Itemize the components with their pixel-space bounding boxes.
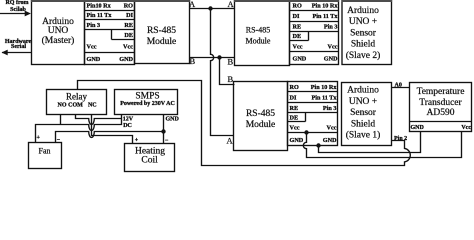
svg-text:GND: GND: [87, 56, 101, 63]
svg-text:Sensor: Sensor: [350, 29, 377, 39]
svg-text:(Master): (Master): [42, 35, 75, 46]
svg-text:Pin 10 Rx: Pin 10 Rx: [311, 84, 338, 91]
svg-text:GND: GND: [166, 117, 180, 123]
svg-text:UNO: UNO: [48, 26, 69, 36]
svg-text:Sensor: Sensor: [350, 108, 377, 118]
svg-text:Pin 3: Pin 3: [323, 105, 337, 112]
svg-text:GND: GND: [411, 125, 425, 131]
svg-text:Module: Module: [246, 120, 276, 130]
svg-text:+: +: [37, 135, 41, 141]
svg-text:Scilab: Scilab: [10, 7, 26, 13]
svg-text:A: A: [227, 136, 234, 146]
svg-text:A: A: [189, 0, 196, 9]
svg-text:RE: RE: [290, 105, 299, 112]
svg-text:B: B: [228, 57, 234, 67]
svg-text:B: B: [228, 74, 234, 84]
svg-text:Fan: Fan: [39, 147, 51, 156]
svg-text:Serial: Serial: [11, 44, 26, 50]
svg-text:A0: A0: [395, 83, 402, 89]
svg-text:Vcc: Vcc: [123, 44, 133, 51]
svg-text:DI: DI: [126, 12, 133, 19]
svg-text:GND: GND: [324, 56, 338, 63]
svg-text:AD590: AD590: [427, 108, 455, 118]
svg-text:Pin 11 Tx: Pin 11 Tx: [312, 95, 338, 102]
svg-text:DI: DI: [293, 13, 300, 20]
svg-text:+: +: [135, 137, 139, 143]
svg-text:RO: RO: [293, 3, 302, 10]
svg-text:RS-485: RS-485: [246, 26, 270, 35]
svg-text:RO: RO: [124, 3, 133, 10]
svg-text:Pin 10 Rx: Pin 10 Rx: [312, 3, 339, 10]
svg-text:Pin 3: Pin 3: [324, 24, 338, 31]
svg-text:DI: DI: [290, 95, 297, 102]
svg-text:GND: GND: [323, 137, 337, 144]
svg-text:12V: 12V: [123, 116, 134, 122]
svg-text:RS-485: RS-485: [246, 109, 275, 119]
svg-text:RO: RO: [290, 84, 299, 91]
svg-text:DE: DE: [293, 33, 302, 40]
svg-text:DC: DC: [123, 123, 132, 129]
svg-text:UNO +: UNO +: [349, 17, 377, 27]
svg-text:Pin10 Rx: Pin10 Rx: [87, 3, 112, 10]
svg-text:Vcc: Vcc: [290, 125, 300, 132]
svg-text:RE: RE: [124, 22, 133, 29]
svg-text:Arduino: Arduino: [347, 6, 379, 16]
svg-text:DE: DE: [290, 115, 299, 122]
svg-text:Temperature: Temperature: [417, 87, 465, 97]
svg-text:Pin 2: Pin 2: [394, 136, 407, 142]
svg-text:GND: GND: [119, 56, 133, 63]
svg-text:A: A: [228, 0, 235, 9]
svg-text:Vcc: Vcc: [328, 43, 338, 50]
svg-text:RS-485: RS-485: [147, 26, 176, 36]
svg-text:NC: NC: [88, 102, 97, 108]
svg-text:Module: Module: [147, 37, 177, 47]
svg-text:RE: RE: [293, 24, 302, 31]
svg-text:Vcc: Vcc: [461, 125, 471, 131]
svg-text:Arduino: Arduino: [347, 86, 379, 96]
svg-text:−: −: [57, 138, 61, 144]
svg-text:Relay: Relay: [66, 91, 87, 101]
svg-text:Vcc: Vcc: [87, 44, 97, 51]
svg-text:−: −: [165, 138, 169, 144]
svg-text:Pin 11 Tx: Pin 11 Tx: [313, 13, 339, 20]
svg-text:UNO +: UNO +: [349, 97, 377, 107]
svg-text:COM: COM: [68, 102, 83, 108]
svg-text:Transducer: Transducer: [419, 98, 462, 108]
svg-text:NO: NO: [58, 102, 67, 108]
svg-text:Shield: Shield: [351, 119, 376, 129]
svg-text:Pin 11 Tx: Pin 11 Tx: [87, 12, 113, 19]
svg-text:DE: DE: [124, 32, 133, 39]
svg-text:Shield: Shield: [351, 40, 376, 50]
svg-text:GND: GND: [293, 56, 307, 63]
svg-text:Vcc: Vcc: [293, 43, 303, 50]
svg-text:Powered by 230V AC: Powered by 230V AC: [120, 101, 175, 107]
svg-text:GND: GND: [290, 137, 304, 144]
svg-text:(Slave 1): (Slave 1): [346, 130, 381, 141]
svg-text:(Slave 2): (Slave 2): [346, 50, 381, 61]
svg-text:Coil: Coil: [141, 156, 158, 166]
svg-text:Module: Module: [246, 37, 271, 46]
svg-text:B: B: [190, 56, 196, 66]
svg-text:Pin 3: Pin 3: [87, 22, 101, 29]
svg-text:Vcc: Vcc: [327, 125, 337, 132]
svg-text:RQ from: RQ from: [5, 0, 28, 6]
